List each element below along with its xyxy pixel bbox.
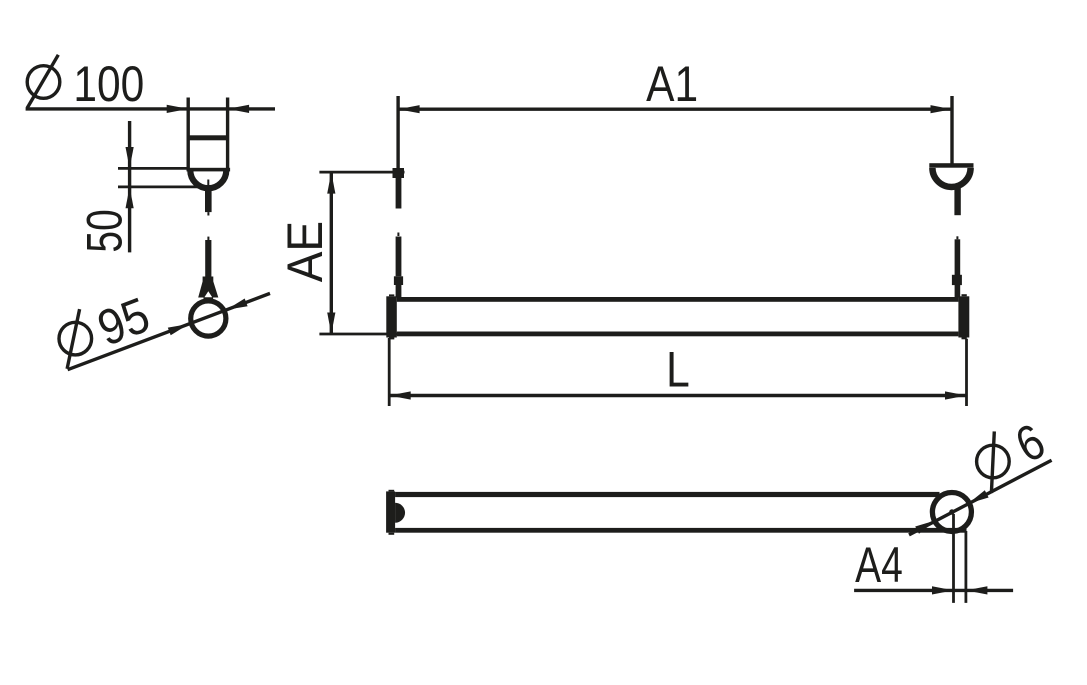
L left arrow [389,391,411,399]
right wire break tick [956,236,958,239]
svg-text:A4: A4 [855,536,903,593]
A1 right arrow [931,105,953,113]
AE top extension line [319,171,404,174]
svg-text:100: 100 [73,56,144,112]
dia6 lower-left arrow [915,520,936,533]
canopy top plate [187,168,231,172]
AE up arrow [327,172,335,194]
AE dimension line [330,172,333,334]
dim50 top extension line [118,167,187,170]
right canopy bowl [932,168,970,187]
dia100 diameter symbol [27,55,60,108]
svg-text:AE: AE [278,221,333,282]
dia100 left arrow [167,105,189,113]
L right arrow [945,391,967,399]
AE down arrow [327,313,335,335]
left wire upper segment [396,178,402,209]
tube left end cap [386,296,397,337]
bottom view: left end tabs [389,490,395,492]
bottom view: tube top edge [395,492,939,497]
dia95 dimension line [68,293,270,369]
canopy right extension line [226,98,229,169]
bottom view: left end bar [386,491,395,532]
dia95 diameter symbol [59,309,92,369]
A1 right extension line [950,96,953,164]
left wire lower segment [396,237,402,277]
A1 left arrow [398,105,420,113]
bottom view: end circle [932,493,971,532]
tube bottom edge [397,332,959,337]
tube right cap tabs [962,294,967,296]
right wire connector [952,275,962,285]
canopy stem [205,186,212,213]
AE bottom extension line [319,333,400,336]
A4 left arrow [932,586,954,594]
dia100 right arrow [228,105,250,113]
right canopy stem [954,188,960,215]
svg-text:50: 50 [76,209,133,252]
left wire top connector [393,168,405,178]
dim50 down arrow [126,147,134,168]
dim50 dimension line [128,121,131,252]
left wire to tube [396,285,402,298]
bottom view: tube bottom edge [395,528,966,533]
A4 left extension line [952,514,955,603]
A4 right arrow [966,586,988,594]
svg-text:A1: A1 [646,56,698,112]
canopy center tick [207,180,209,186]
L left extension line [388,338,391,406]
dia6 upper-right arrow [968,490,989,503]
canopy bowl [190,170,226,188]
tube left cap tabs [389,294,394,296]
left wire break tick [397,233,399,237]
L right extension line [965,339,968,406]
canopy mid bar [188,135,227,140]
right wire segment [955,239,961,297]
right canopy top plate [929,163,973,168]
suspension wire detail [205,240,211,277]
left wire lower connector [394,276,403,285]
bottom view: center dot [949,509,954,514]
svg-text:L: L [666,341,690,397]
A4 right extension line [965,531,968,603]
suspension ring [191,301,226,336]
L dimension line [389,394,966,397]
A1 left extension line [396,96,399,168]
bottom view: end bump [395,503,405,523]
wire gripper connector [203,277,214,282]
dim50 bottom extension line [118,185,203,188]
dia95 upper-right arrow [227,299,248,310]
wire break tick upper [207,212,209,215]
dim50 up arrow [126,187,134,208]
canopy left extension line [186,98,189,169]
main view: A1 dimension line [398,107,952,110]
dia6 leader line [909,460,1052,535]
A4 dimension line [854,589,1013,592]
dia6 diameter symbol [977,431,1010,493]
gripper funnel [198,282,218,298]
tube right end cap [958,296,969,337]
detail view canopy: dia100 dimension line [26,107,275,110]
wire break tick lower [207,237,209,240]
tube top edge [397,297,959,302]
dia95 lower-left arrow [168,324,189,335]
